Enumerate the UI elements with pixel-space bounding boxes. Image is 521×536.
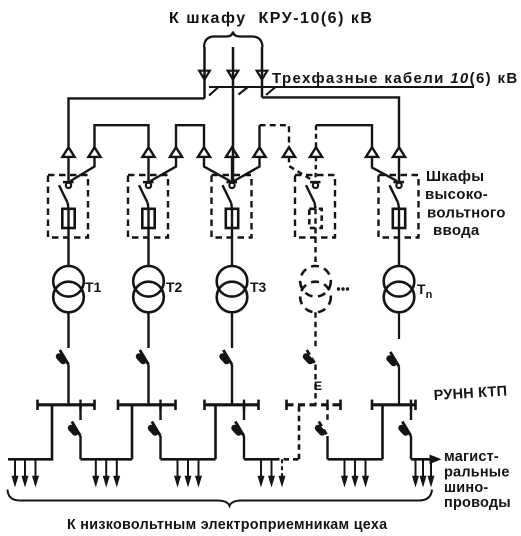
- wire: bay3 left arrow to switch: [204, 157, 230, 181]
- svg-text:ральные: ральные: [444, 465, 510, 481]
- transition slash at cable 2: [239, 87, 249, 95]
- wire: bus to lower breaker bay5: [410, 405, 412, 420]
- load arrow link2-3: [198, 459, 200, 477]
- fuse FU1: [62, 209, 74, 228]
- disconnector contact tick bay1: [63, 181, 74, 184]
- fuse FU5: [393, 209, 405, 228]
- ellipsis dots after T4: [337, 287, 340, 290]
- disconnector blade bay1: [59, 185, 68, 203]
- load arrow tail-1: [415, 459, 417, 477]
- load arrow link1-2: [105, 459, 107, 477]
- wire: transformer to breaker bay2: [147, 312, 149, 348]
- load arrow tail-3: [430, 459, 432, 477]
- svg-text:Е: Е: [314, 379, 322, 393]
- disconnector contact tick bay2: [143, 181, 154, 184]
- wire: fuse to transformer bay4: [314, 228, 316, 266]
- cable 2 from KRU: [232, 47, 235, 181]
- wire: switch to fuse bay4: [314, 203, 317, 209]
- fuse FU3: [226, 209, 238, 228]
- wire: switch to fuse bay5: [397, 203, 400, 209]
- svg-text:К шкафу КРУ-10(6) кВ: К шкафу КРУ-10(6) кВ: [169, 10, 373, 27]
- wire: bus to lower breaker bay1: [79, 405, 81, 420]
- lower breaker QF4.1: [319, 422, 328, 437]
- wire: trunk link bay3-bay4: [243, 436, 245, 459]
- LV busbar bay1 (РУНН): [38, 403, 95, 406]
- disconnector hinge circle bay3: [229, 183, 234, 188]
- plug connector bay3 center: [226, 147, 238, 157]
- wire: fuse to transformer bay5: [398, 228, 400, 266]
- plug connector bay3 left: [198, 147, 210, 157]
- load arrow stub-2: [24, 459, 26, 477]
- cable 3 arrow: [257, 71, 268, 80]
- transformer T5 windings: [384, 266, 415, 297]
- cable 1 arrow: [199, 71, 210, 80]
- disconnector hinge circle bay1: [66, 183, 71, 188]
- load arrow link3-3: [281, 459, 283, 477]
- wire: trunk link bay2-bay3: [159, 436, 161, 459]
- plug connector bay4 center: [310, 147, 322, 157]
- wire: bay3 right arrow stub: [258, 125, 260, 147]
- svg-text:Т3: Т3: [250, 279, 267, 295]
- wire: switch to fuse bay3: [230, 203, 233, 209]
- transition slash at cable 1: [209, 87, 219, 96]
- wire: link bay4-bay5: [316, 125, 372, 147]
- wire: breaker to bus bay3: [231, 365, 233, 405]
- plug connector bay2 left: [142, 147, 154, 157]
- load arrow stub-1: [14, 459, 16, 477]
- svg-text:шино-: шино-: [444, 480, 488, 496]
- load arrow link2-2: [187, 459, 189, 477]
- wire: bay3 right arrow to switch: [234, 157, 260, 181]
- wire: transformer to breaker bay4: [314, 312, 316, 348]
- transformer T2 windings: [133, 266, 164, 297]
- wire: feeder from cable 3 to bay 5: [262, 97, 399, 147]
- transformer T4 windings: [300, 266, 331, 297]
- wire: bay3 center arrow to switch: [231, 157, 233, 181]
- svg-text:вольтного: вольтного: [427, 205, 506, 222]
- cable 2 arrow: [228, 71, 239, 80]
- wire: fuse to transformer bay1: [67, 228, 69, 266]
- plug connector bay5 left: [366, 147, 378, 157]
- underbrace for loads: [8, 490, 433, 506]
- wire: trunk link bay4-bay5: [326, 436, 328, 459]
- circuit breaker QF4: [307, 350, 316, 365]
- brace over three cables: [204, 32, 263, 48]
- LV busbar bay2 (РУНН): [118, 403, 176, 406]
- fuse FU2: [142, 209, 154, 228]
- svg-text:Трехфазные кабели 10(6) кВ: Трехфазные кабели 10(6) кВ: [272, 70, 519, 87]
- svg-text:высоко-: высоко-: [425, 186, 488, 203]
- wire: bay1 left drop to stub: [8, 405, 52, 460]
- circuit breaker QF3: [223, 350, 232, 365]
- disconnector blade bay3: [223, 185, 232, 203]
- wire: breaker to bus bay2: [147, 365, 149, 405]
- wire: bay4 center arrow stub (dashed): [315, 125, 317, 147]
- load arrow link3-2: [271, 459, 273, 477]
- load arrow link4-3: [365, 459, 367, 477]
- disconnector blade bay4: [306, 185, 315, 203]
- svg-text:проводы: проводы: [444, 495, 511, 511]
- underline of cable label: [209, 86, 474, 88]
- transformer T1 windings: [53, 266, 84, 297]
- LV busbar bay4 (РУНН): [287, 403, 341, 406]
- HV cabinet box bay1: [48, 175, 88, 238]
- wire: transformer to breaker bay5: [398, 312, 400, 339]
- wire: bay1 right arrow to switch: [71, 157, 95, 181]
- circuit breaker QF2: [140, 350, 149, 365]
- load arrow link4-2: [354, 459, 356, 477]
- disconnector hinge circle bay5: [396, 183, 401, 188]
- wire: bus to lower breaker bay2: [159, 405, 161, 420]
- wire: switch to fuse bay2: [146, 203, 149, 209]
- wire: bay4 left arrow to switch (dashed): [289, 157, 314, 181]
- lower breaker QF5.1: [402, 422, 411, 437]
- disconnector hinge circle bay2: [146, 183, 151, 188]
- circuit breaker QF5: [390, 352, 399, 367]
- HV cabinet box bay2: [128, 175, 168, 238]
- LV busbar bay3 (РУНН): [205, 403, 259, 406]
- load arrow link2-1: [177, 459, 179, 477]
- load arrow link1-1: [95, 459, 97, 477]
- disconnector contact tick bay3: [227, 181, 238, 184]
- svg-text:ввода: ввода: [433, 222, 480, 239]
- wire: breaker to bus bay5: [398, 367, 400, 405]
- cable 3 from KRU: [261, 47, 264, 97]
- disconnector blade bay2: [139, 185, 148, 203]
- wire: switch to fuse bay1: [66, 203, 69, 209]
- disconnector blade bay5: [390, 185, 399, 203]
- plug connector bay1 left: [62, 147, 74, 157]
- disconnector contact tick bay5: [394, 181, 405, 184]
- wire: bus to lower breaker bay4: [326, 405, 328, 420]
- wire: fuse to transformer bay3: [231, 228, 233, 266]
- load arrow link1-3: [116, 459, 118, 477]
- wire: bay5 center arrow to switch: [398, 157, 400, 181]
- plug connector bay4 left: [283, 147, 295, 157]
- cable 1 from KRU: [203, 47, 206, 98]
- disconnector hinge circle bay4: [313, 183, 318, 188]
- svg-text:Шкафы: Шкафы: [426, 168, 484, 185]
- lower breaker QF1.1: [72, 422, 81, 437]
- svg-text:Т1: Т1: [85, 279, 102, 295]
- wire: bay1 left arrow to switch: [67, 157, 69, 181]
- plug connector bay3 right: [253, 147, 265, 157]
- wire: breaker to bus bay4: [314, 365, 316, 405]
- wire: breaker to bus bay1: [67, 365, 69, 405]
- svg-text:Т2: Т2: [166, 279, 183, 295]
- plug connector bay2 right: [170, 147, 182, 157]
- wire: bay5 left arrow to switch: [372, 157, 397, 181]
- wire: trunk link bay1-bay2: [79, 436, 81, 459]
- lower breaker QF3.1: [235, 422, 244, 437]
- arrow to trunk busways: [430, 455, 442, 465]
- load arrow stub-3: [35, 459, 37, 477]
- wire: dashed reserve link bay3-bay4: [260, 125, 290, 147]
- svg-text:магист-: магист-: [444, 449, 499, 465]
- wire: transformer to breaker bay3: [231, 312, 233, 348]
- plug connector bay1 right: [88, 147, 100, 157]
- plug connector bay5 center: [393, 147, 405, 157]
- svg-text:К низковольтным электроприемни: К низковольтным электроприемникам цеха: [67, 517, 388, 533]
- wire: bay5 trunk tail: [410, 436, 412, 459]
- wire: link bay1-bay2: [95, 125, 149, 147]
- wire: bay2 left arrow to switch: [147, 157, 149, 181]
- load arrow tail-2: [422, 459, 424, 477]
- disconnector contact tick bay4: [310, 181, 321, 184]
- wire: transformer to breaker bay1: [67, 312, 69, 348]
- load arrow link4-1: [344, 459, 346, 477]
- wire: bus to lower breaker bay3: [243, 405, 245, 420]
- transformer T3 windings: [217, 266, 248, 297]
- wire: fuse to transformer bay2: [147, 228, 149, 266]
- load arrow link3-1: [260, 459, 262, 477]
- HV cabinet box bay4: [295, 175, 335, 238]
- circuit breaker QF1: [60, 350, 69, 365]
- lower breaker QF2.1: [152, 422, 161, 437]
- wire: link bay2-bay3: [176, 125, 204, 147]
- HV cabinet box bay3: [212, 175, 252, 238]
- HV cabinet box bay5: [379, 175, 419, 238]
- wire: bay4 center arrow to switch (dashed): [314, 157, 317, 181]
- LV busbar bay5 (РУНН): [372, 403, 416, 406]
- transition slash at cable 3: [266, 87, 276, 95]
- fuse FU4: [309, 209, 321, 228]
- wire: bay2 right arrow to switch: [151, 157, 177, 181]
- wire: feeder from cable 1 to bay 1: [69, 98, 205, 147]
